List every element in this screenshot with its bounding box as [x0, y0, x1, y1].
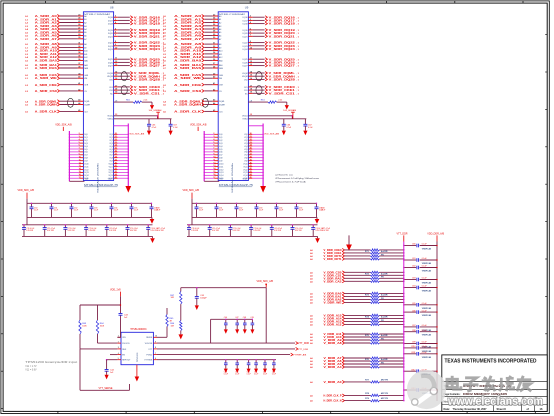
wire DQS0 — [109, 133, 128, 136]
capacitor C48 — [243, 317, 247, 334]
ground arrow row2 — [315, 236, 320, 243]
svg-text:A_SDR_A7: A_SDR_A7 — [35, 37, 57, 41]
wire DQ4 — [69, 145, 88, 148]
wire DQ14 — [69, 174, 89, 177]
wire V_DDR_A8 to bus — [379, 342, 404, 343]
decoupling cap bank — [18, 189, 165, 243]
svg-text:VTT_SENSE: VTT_SENSE — [99, 387, 113, 390]
mod row — [444, 397, 537, 405]
svg-text:VLDOIN: VLDOIN — [145, 343, 153, 345]
svg-text:VQ10: VQ10 — [108, 163, 112, 165]
wire V_DDR_BA2 — [310, 298, 370, 302]
svg-text:A10: A10 — [219, 50, 222, 53]
svg-text:DQ9: DQ9 — [84, 161, 88, 163]
wire cap row1 top rail — [192, 202, 317, 204]
wire VDDQ — [114, 125, 129, 127]
wire A_SDR_A2 — [163, 21, 221, 25]
wire DQS6 — [109, 151, 128, 154]
capacitor C108 0.1uF VREF — [403, 330, 437, 337]
svg-text:VQ5: VQ5 — [244, 149, 247, 151]
wire A_SDR_A1 — [25, 17, 86, 22]
svg-text:CK1: CK1 — [244, 87, 248, 89]
svg-text:VQ4: VQ4 — [109, 146, 112, 148]
svg-text:C88: C88 — [412, 330, 415, 332]
svg-text:A7: A7 — [84, 38, 86, 41]
svg-text:V_DDR_A4: V_DDR_A4 — [324, 365, 343, 369]
wire V_DDR_CKE1 — [310, 251, 370, 255]
svg-text:VQ3: VQ3 — [109, 143, 112, 145]
svg-text:LDQM: LDQM — [107, 73, 113, 75]
wire V_DDR_BA2 to bus — [379, 299, 404, 300]
svg-text:7: 7 — [155, 353, 156, 355]
wire DQ3 — [69, 142, 88, 145]
capacitor C54 0.1uF — [235, 359, 239, 375]
resistor H_DDR_CLK_P — [370, 394, 379, 396]
capacitor C47 — [235, 317, 239, 334]
wire V_DDR_CS1 — [310, 273, 370, 277]
wire A_SDR_RAS — [163, 66, 223, 70]
resistor R65 4R — [157, 308, 174, 337]
svg-text:0.1uF: 0.1uF — [199, 210, 203, 212]
capacitor C44 1uF — [105, 359, 118, 379]
svg-text:REFOUT: REFOUT — [122, 360, 131, 362]
svg-text:DQ13: DQ13 — [84, 172, 88, 174]
svg-text:9: 9 — [79, 154, 80, 156]
svg-text:4R7 PK: 4R7 PK — [381, 392, 389, 395]
termination network region — [310, 233, 445, 403]
svg-text:A4: A4 — [219, 28, 221, 31]
wire VDDQ — [248, 125, 263, 127]
wire H_DDR_CLK_N to bus — [379, 400, 404, 401]
svg-text:CK0: CK0 — [109, 79, 113, 81]
regulator circuit TPS51200 — [79, 280, 309, 391]
net stub row2 end — [322, 228, 330, 232]
wire A_SDR_DQML — [163, 99, 224, 104]
svg-text:16: 16 — [79, 174, 81, 176]
svg-text:A6: A6 — [219, 35, 221, 38]
svg-text:VQ5: VQ5 — [109, 149, 112, 151]
svg-text:V11 = 0.9V: V11 = 0.9V — [25, 369, 37, 371]
svg-text:VIN: VIN — [122, 337, 126, 339]
svg-text:DQ21: DQ21 — [243, 36, 248, 38]
svg-text:C810: C810 — [411, 346, 416, 348]
svg-text:A_SDR_CLK: A_SDR_CLK — [35, 110, 58, 114]
svg-text:DQ18: DQ18 — [243, 24, 248, 26]
svg-text:0.1uF: 0.1uF — [422, 352, 428, 354]
capacitor C49 — [250, 317, 254, 334]
wire V_DDR_A15 to bus — [379, 315, 404, 316]
wire A_SDR_A8 — [163, 42, 221, 46]
resistor pack R79 — [365, 397, 389, 400]
wire H_DDR_CLK_P — [310, 394, 370, 398]
power flag VDD_3V3 — [156, 112, 160, 119]
wire V_DDR_CAS — [310, 279, 370, 283]
svg-text:2: 2 — [118, 341, 119, 343]
wire V_DDR_BA0 — [310, 292, 370, 296]
capacitor C57 0.1uF — [263, 359, 267, 375]
svg-text:DQ11: DQ11 — [84, 166, 88, 168]
svg-text:DQ23: DQ23 — [243, 46, 248, 48]
svg-text:A0: A0 — [84, 15, 86, 18]
wire DQS12 — [108, 167, 128, 171]
svg-text:7: 7 — [213, 148, 214, 150]
svg-text:6.3V X5R: 6.3V X5R — [109, 230, 117, 232]
resistor R61 2.2k — [126, 100, 148, 104]
svg-text:0.1uF: 0.1uF — [272, 373, 276, 375]
svg-text:VDD_SDK_A/B: VDD_SDK_A/B — [55, 124, 72, 127]
0-ohm jumper group right — [256, 72, 262, 81]
svg-text:9: 9 — [155, 341, 156, 343]
svg-text:DQMH: DQMH — [219, 105, 225, 107]
wire DQS3 — [244, 142, 263, 145]
svg-text:DQ26: DQ26 — [108, 62, 113, 64]
pin stub right 8 — [153, 347, 157, 349]
svg-text:3: 3 — [118, 347, 119, 349]
wire A_SDR_WE — [25, 76, 88, 81]
capacitor C75 4.7uF — [126, 224, 138, 236]
svg-text:C75 4.7uF: C75 4.7uF — [130, 228, 138, 230]
power flag VDD_SDK_A/B feed — [18, 189, 35, 199]
svg-text:32: 32 — [250, 139, 252, 141]
svg-text:10: 10 — [79, 156, 81, 158]
wire cap row2 top rail — [22, 224, 153, 226]
wire V_SDR_DQ20 — [108, 31, 165, 35]
wire DQS14 — [108, 173, 128, 177]
resistor V_DDR_A9 — [370, 339, 379, 341]
wire A_SDR_A6 — [25, 34, 86, 38]
wire V_SDR_DQ17 — [108, 19, 165, 23]
svg-text:C80: C80 — [412, 244, 415, 246]
svg-text:VQ14: VQ14 — [108, 175, 112, 177]
svg-text:33: 33 — [250, 142, 252, 144]
svg-text:C49: C49 — [250, 317, 253, 319]
svg-text:VQ9: VQ9 — [109, 161, 112, 163]
svg-text:A5: A5 — [84, 31, 86, 34]
svg-text:VSSQ: VSSQ — [108, 119, 114, 121]
svg-text:0.1uF: 0.1uF — [279, 210, 283, 212]
svg-text:C811: C811 — [411, 352, 415, 354]
wire A_SDR_A3 — [163, 24, 221, 28]
capacitor C55 0.1uF — [247, 359, 251, 375]
wire A_SDR_A12 — [25, 55, 87, 59]
svg-text:V_SDR_DQ28: V_SDR_DQ28 — [269, 78, 295, 82]
svg-text:0.1uF: 0.1uF — [34, 210, 38, 212]
wire DQS12 — [243, 167, 263, 171]
wire A_SDR_A0 — [163, 14, 221, 18]
svg-text:A2: A2 — [84, 22, 86, 25]
svg-text:0.1uF: 0.1uF — [94, 210, 98, 212]
pin stub right 7 — [153, 353, 157, 355]
svg-text:DQ22: DQ22 — [108, 43, 113, 45]
power flag VDD_3V3 — [291, 112, 295, 119]
wire A_SDR_A5 — [25, 30, 86, 34]
svg-text:39: 39 — [115, 159, 117, 161]
resistor pack R73 22R — [365, 294, 388, 300]
resistor V_DDR_A15 — [370, 314, 379, 316]
svg-text:44: 44 — [115, 173, 117, 176]
svg-text:#Placement 0.1uF/pkg 100mil ma: #Placement 0.1uF/pkg 100mil max — [275, 177, 320, 180]
wire DQS9 — [244, 159, 263, 162]
svg-text:0.1uF: 0.1uF — [263, 373, 267, 375]
svg-text:32: 32 — [115, 139, 117, 141]
wire A_SDR_CKE — [163, 82, 223, 87]
resistor V_DDR_A8 — [370, 342, 379, 344]
capacitor C66 4.7uF — [282, 119, 292, 135]
svg-text:DQ14: DQ14 — [219, 175, 223, 177]
svg-text:A_SDR_CKE: A_SDR_CKE — [174, 83, 201, 87]
svg-text:A5: A5 — [219, 31, 221, 34]
wire VTT rail — [157, 348, 295, 350]
svg-text:3: 3 — [213, 136, 214, 138]
svg-text:A_SDR_DQMH: A_SDR_DQMH — [174, 103, 201, 107]
wire A_SDR_CS0 — [25, 88, 87, 93]
pin stub left 1 — [117, 336, 121, 338]
svg-text:VQ1: VQ1 — [109, 137, 112, 139]
capacitor C105 0.1uF VREF — [403, 303, 437, 310]
svg-text:DQ21: DQ21 — [108, 36, 113, 38]
wire V_DDR_CS0 — [310, 270, 370, 274]
svg-text:VQ3: VQ3 — [244, 143, 247, 145]
capacitor C70 4.7uF — [187, 224, 199, 236]
svg-text:C56: C56 — [254, 371, 257, 373]
svg-text:A12: A12 — [84, 56, 87, 59]
svg-text:0.1uF: 0.1uF — [422, 346, 428, 348]
resistor pack R71 22R — [365, 250, 388, 256]
svg-text:A8: A8 — [84, 43, 86, 46]
wire DQ7 — [204, 154, 223, 157]
svg-text:VTT_DDR: VTT_DDR — [298, 349, 309, 351]
svg-text:43: 43 — [115, 170, 117, 173]
capacitor C112 0.1uF VREF — [403, 369, 437, 376]
wire V_DDR_A6 — [310, 359, 370, 363]
wire V_DDR_CS1 to bus — [379, 275, 404, 276]
wire DQS11 — [109, 164, 129, 168]
wire A_SDR_A11 — [25, 51, 87, 56]
svg-text:DQ6: DQ6 — [219, 152, 223, 154]
svg-text:TPS51200: TPS51200 — [137, 352, 139, 362]
date row — [444, 405, 543, 412]
resistor V_DDR_CAS — [370, 280, 379, 282]
svg-text:VQ2: VQ2 — [244, 140, 247, 142]
svg-text:u/See5 xx: u/See5 xx — [275, 174, 295, 176]
svg-text:DQ10: DQ10 — [219, 163, 223, 165]
capacitor C102 0.1uF VREF — [403, 266, 437, 273]
wire A_SDR_A12 — [163, 55, 222, 59]
svg-text:4: 4 — [118, 353, 119, 355]
wire DQS10 — [243, 161, 263, 165]
svg-text:6.3V X5R: 6.3V X5R — [157, 230, 165, 232]
capacitor C58 0.1uF — [272, 359, 276, 375]
wire V_DDR_WE — [310, 301, 370, 305]
wire DQS0 — [244, 133, 263, 136]
capacitor C107 0.1uF VREF — [403, 325, 437, 332]
svg-text:A_SDR_RAS: A_SDR_RAS — [174, 66, 201, 70]
svg-text:35: 35 — [250, 148, 252, 150]
svg-text:6.3V X5R: 6.3V X5R — [322, 230, 330, 232]
wire V_DDR_A7 to bus — [379, 357, 404, 358]
wire cap row1 top rail — [27, 202, 152, 204]
svg-text:VREFCA0: VREFCA0 — [422, 248, 432, 251]
wire DQ12 — [69, 167, 89, 171]
wire A_SDR_CAS — [25, 73, 89, 77]
svg-text:C81: C81 — [412, 258, 415, 260]
wire V_DDR_A10 — [310, 335, 370, 339]
svg-text:DQ20: DQ20 — [243, 33, 248, 35]
capacitor C52 0.1uF — [70, 203, 79, 218]
svg-text:4: 4 — [213, 138, 214, 141]
wire VLDOIN rail — [210, 319, 212, 343]
svg-text:34: 34 — [250, 144, 252, 147]
wire V_DDR_ODT0 to bus — [379, 255, 404, 256]
svg-text:VQ12: VQ12 — [108, 169, 112, 171]
wire V_SDR_CKE1 — [244, 88, 300, 92]
svg-text:DQ25: DQ25 — [108, 59, 113, 61]
svg-text:DQ0: DQ0 — [219, 134, 223, 136]
capacitor C71 4.7uF — [208, 224, 220, 236]
border zone ticks bottom — [58, 411, 535, 413]
svg-text:DQ22: DQ22 — [243, 43, 248, 45]
capacitor C51 0.1uF — [50, 203, 59, 218]
resistor R61 2.2k — [261, 100, 283, 104]
wire DQ5 — [69, 148, 88, 151]
wire V_DDR_CS0 to bus — [379, 272, 404, 273]
wire V_SDR_CKE1 — [109, 88, 165, 92]
svg-text:DQ12: DQ12 — [219, 169, 223, 171]
svg-text:C54: C54 — [235, 371, 238, 373]
wire DQ14 — [204, 174, 224, 177]
pin stub left 2 — [117, 341, 121, 343]
svg-text:6.3V X5R: 6.3V X5R — [295, 230, 303, 232]
wire V_SDR_CS1 — [110, 91, 165, 95]
svg-text:41: 41 — [250, 164, 252, 167]
svg-text:BA0: BA0 — [219, 59, 223, 62]
svg-text:C77 4.7uF: C77 4.7uF — [322, 228, 330, 230]
svg-text:DQ8: DQ8 — [219, 158, 223, 160]
svg-text:45: 45 — [115, 176, 117, 179]
svg-text:8: 8 — [155, 347, 156, 349]
wire DQS2 — [109, 139, 128, 142]
svg-text:A_SDR_RAS: A_SDR_RAS — [35, 66, 57, 70]
wire V_SDR_DQ25 — [108, 57, 165, 61]
wire V_DDR_A4 — [310, 365, 370, 369]
svg-text:DQ9: DQ9 — [219, 161, 223, 163]
svg-text:VREFCA0: VREFCA0 — [422, 314, 432, 317]
resistor V_DDR_CKE0 — [370, 249, 379, 251]
wire cap rail upper — [211, 318, 253, 320]
wire V_SDR_DQ21 — [243, 34, 300, 38]
wire DQS7 — [109, 154, 128, 157]
svg-text:C86: C86 — [412, 310, 415, 312]
net label VDD_DDR_A/B — [427, 233, 444, 242]
SDRAM memory U9 — [163, 6, 313, 194]
page contents row — [444, 393, 508, 396]
wire V_DDR_BA1 — [310, 295, 370, 299]
wire V_DDR_ODT0 — [310, 254, 370, 258]
svg-text:0.1uF: 0.1uF — [422, 330, 428, 332]
capacitor C50 0.1uF — [30, 203, 39, 218]
wire DQS4 — [109, 144, 128, 148]
svg-text:0.1uF: 0.1uF — [422, 303, 428, 305]
svg-text:BA1: BA1 — [219, 64, 223, 67]
capacitor C43 1uF — [119, 314, 129, 319]
capacitor C51 0.1uF — [215, 203, 224, 218]
resistor V_DDR_A5 — [370, 363, 379, 365]
svg-text:0.1uF: 0.1uF — [422, 244, 428, 246]
wire VIN drop — [265, 288, 267, 343]
capacitor C73 4.7uF — [249, 224, 261, 236]
svg-text:V_SDR_DQ27: V_SDR_DQ27 — [269, 64, 295, 68]
resistor V_DDR_WE — [370, 301, 379, 303]
svg-text:C87: C87 — [412, 325, 415, 327]
wire A_SDR_A8 — [25, 42, 86, 46]
svg-text:C53: C53 — [224, 371, 227, 373]
wire A_SDR_A11 — [163, 51, 222, 56]
svg-text:45: 45 — [250, 176, 252, 179]
wire A_SDR_BA1 — [25, 63, 87, 67]
wire V_DDR_A5 — [310, 362, 370, 366]
svg-text:PGOOD: PGOOD — [122, 343, 130, 345]
svg-text:3: 3 — [79, 136, 80, 138]
resistor V_DDR_CS1 — [370, 274, 379, 276]
svg-text:5: 5 — [118, 358, 119, 360]
border zone ticks top — [46, 1, 523, 3]
wire V_DDR_BA1 to bus — [379, 296, 404, 297]
pin stub right 9 — [153, 341, 157, 343]
svg-text:V_SDR_DQ28: V_SDR_DQ28 — [134, 78, 160, 82]
svg-text:VTT_DDR: VTT_DDR — [397, 233, 408, 236]
ground stub top — [346, 235, 352, 250]
svg-text:CS1: CS1 — [244, 90, 248, 92]
svg-text:0.1uF: 0.1uF — [235, 373, 239, 375]
svg-text:V_SDR_DQ27: V_SDR_DQ27 — [134, 64, 160, 68]
capacitor C67 4.7uF — [303, 119, 313, 135]
wire CLK series — [114, 101, 134, 103]
svg-text:VQ8: VQ8 — [244, 158, 247, 160]
pin stub left 4 — [117, 353, 121, 355]
wire V_DDR_A12 — [310, 323, 370, 327]
wire DQS8 — [244, 156, 263, 159]
wire V_SDR_CS1 — [245, 91, 300, 95]
IC body U8 — [83, 12, 113, 181]
svg-text:A11: A11 — [84, 53, 87, 56]
svg-text:C58: C58 — [272, 371, 275, 373]
wire VO rail — [157, 342, 295, 344]
wire V_SDR_DQ22 — [108, 41, 165, 45]
wire sense loop — [80, 349, 130, 390]
wire DQS1 — [244, 136, 263, 139]
wire V_SDR_DQ18 — [108, 21, 165, 26]
DQ bus vertical — [68, 131, 70, 181]
wire V_SDR_DQ16 — [243, 15, 300, 19]
wire V_DDR_CKE0 to bus — [379, 249, 404, 250]
svg-text:42: 42 — [115, 167, 117, 170]
wire V_DDR_CKE0 — [310, 248, 370, 252]
resistor V_DDR_CS0 — [370, 271, 379, 273]
svg-text:C74 4.7uF: C74 4.7uF — [109, 228, 117, 230]
svg-text:C48: C48 — [243, 317, 246, 319]
capacitor C72 4.7uF — [228, 224, 240, 236]
resistor V_DDR_ODT0 — [370, 255, 379, 257]
svg-text:A_SDR_CKE: A_SDR_CKE — [35, 83, 57, 87]
svg-text:A_SDR_CS0: A_SDR_CS0 — [174, 89, 201, 93]
svg-text:A_SDR_CLK: A_SDR_CLK — [174, 110, 202, 114]
svg-text:4: 4 — [79, 138, 80, 141]
wire cap row1 bottom rail — [27, 216, 152, 218]
wire CLK to node — [142, 101, 152, 103]
svg-text:11: 11 — [213, 159, 215, 161]
svg-text:2: 2 — [79, 133, 80, 135]
VTT bus vertical — [403, 242, 405, 402]
